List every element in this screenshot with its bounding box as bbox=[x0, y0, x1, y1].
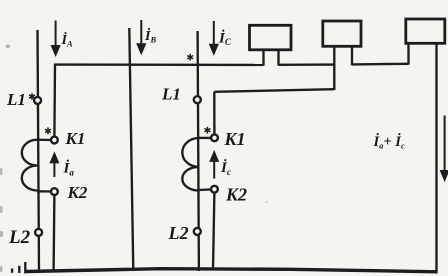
svg-text:İc: İc bbox=[220, 159, 231, 177]
svg-text:İa+ İc: İa+ İc bbox=[373, 133, 405, 151]
svg-text:K1: K1 bbox=[65, 129, 86, 148]
svg-text:L1: L1 bbox=[161, 85, 181, 104]
svg-text:L2: L2 bbox=[168, 223, 189, 243]
svg-text:İA: İA bbox=[61, 31, 73, 49]
svg-text:K1: K1 bbox=[224, 129, 246, 149]
svg-text:K2: K2 bbox=[225, 185, 247, 205]
svg-text:İC: İC bbox=[218, 30, 232, 48]
svg-text:K2: K2 bbox=[67, 183, 88, 202]
svg-text:L1: L1 bbox=[6, 90, 26, 109]
svg-text:İB: İB bbox=[144, 27, 156, 45]
svg-text:L2: L2 bbox=[8, 227, 31, 248]
svg-text:İa: İa bbox=[63, 160, 75, 178]
